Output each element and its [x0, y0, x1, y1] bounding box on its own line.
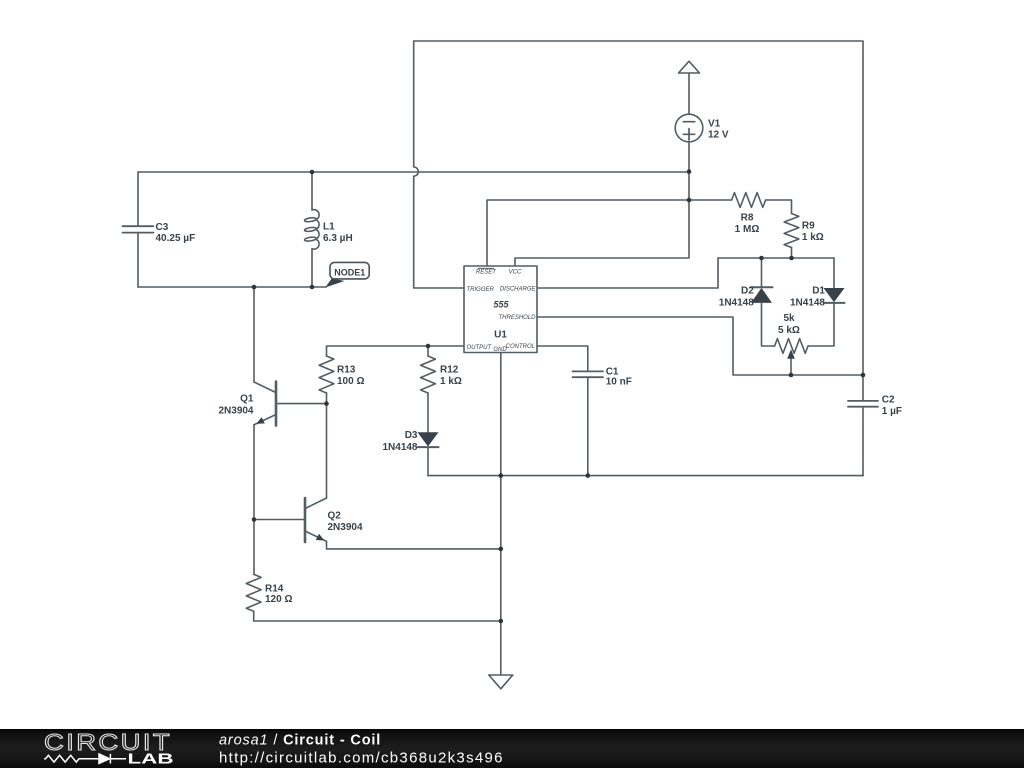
wire R8 to R9	[766, 200, 792, 214]
node NODE1 flag	[312, 262, 369, 287]
node dot R12 output	[426, 344, 431, 349]
svg-text:D3: D3	[405, 430, 418, 441]
wire OUTPUT left to R13	[327, 346, 465, 356]
wire R14 to bottom left rail	[254, 611, 501, 621]
svg-text:1N4148: 1N4148	[382, 442, 417, 453]
capacitor C2	[848, 375, 878, 476]
inductor L1	[304, 172, 319, 287]
diode D2	[751, 258, 775, 346]
svg-text:R8: R8	[741, 213, 754, 224]
svg-text:THRESHOLD: THRESHOLD	[498, 315, 536, 321]
svg-text:C3: C3	[156, 222, 169, 233]
svg-text:120 Ω: 120 Ω	[265, 594, 292, 605]
svg-text:arosa1 / Circuit - Coil: arosa1 / Circuit - Coil	[219, 733, 381, 749]
svg-text:12 V: 12 V	[708, 130, 729, 141]
wire THRESHOLD to pot wiper bus	[537, 317, 863, 375]
svg-text:R12: R12	[440, 365, 459, 376]
footer bar	[0, 729, 1024, 768]
wire R12 tap	[427, 346, 429, 356]
wire Q1 collector up to tank	[253, 287, 255, 382]
wire R9 to bus	[791, 248, 793, 259]
wire diode bus	[718, 257, 834, 259]
svg-text:6.3 µH: 6.3 µH	[323, 233, 353, 244]
svg-text:1 µF: 1 µF	[882, 406, 902, 417]
power flag arrow above V1	[679, 61, 700, 114]
resistor R8	[732, 193, 766, 208]
node dot Q2 emitter gnd	[499, 547, 504, 552]
svg-text:1 kΩ: 1 kΩ	[440, 376, 462, 387]
node dot Q1 collector tank	[252, 285, 257, 290]
svg-text:http://circuitlab.com/cb368u2k: http://circuitlab.com/cb368u2k3s496	[219, 749, 504, 766]
wire Q1 emitter down to R14	[253, 425, 255, 575]
svg-text:40.25 µF: 40.25 µF	[156, 233, 196, 244]
wire R13 to base node	[326, 393, 328, 404]
diode D3	[418, 432, 439, 475]
wire left vertical with hop over tank wire	[414, 41, 464, 288]
resistor R12	[421, 356, 436, 393]
node dot V1 reset junction	[687, 198, 692, 203]
wire tank bottom	[138, 286, 312, 288]
svg-text:1N4148: 1N4148	[719, 298, 754, 309]
node dot C2 top	[861, 373, 866, 378]
svg-text:D2: D2	[741, 286, 754, 297]
capacitor C3	[123, 172, 154, 287]
wire Q2 base	[254, 519, 305, 521]
resistor R13	[319, 356, 334, 393]
voltage source V1	[675, 114, 703, 142]
node dot R9 bus	[789, 256, 794, 261]
wire CONTROL to C1	[537, 346, 588, 371]
svg-text:R9: R9	[802, 221, 815, 232]
op-amp U1 555 box	[464, 266, 537, 353]
node dot NODE1 attach	[310, 285, 315, 290]
svg-text:Q2: Q2	[328, 510, 342, 521]
wire tank top	[138, 171, 689, 173]
svg-text:NODE1: NODE1	[334, 268, 365, 278]
svg-text:10 nF: 10 nF	[606, 377, 632, 388]
resistor R9	[784, 214, 799, 248]
wire outer loop top and right border	[414, 41, 863, 375]
logo resistor diode squiggle	[44, 754, 126, 764]
svg-text:2N3904: 2N3904	[328, 522, 363, 533]
svg-text:Q1: Q1	[240, 394, 254, 405]
node dot D2 bus	[759, 256, 764, 261]
svg-text:2N3904: 2N3904	[218, 405, 253, 416]
transistor Q1	[254, 382, 276, 426]
svg-text:555: 555	[493, 300, 509, 310]
node dot gnd bottom rail	[499, 473, 504, 478]
svg-text:1 MΩ: 1 MΩ	[735, 224, 760, 235]
svg-text:100 Ω: 100 Ω	[337, 376, 364, 387]
svg-text:CONTROL: CONTROL	[506, 344, 535, 350]
capacitor C1	[573, 371, 604, 475]
svg-text:R13: R13	[337, 365, 356, 376]
wire RESET up and right to R8	[487, 200, 732, 266]
potentiometer 5k	[775, 339, 808, 375]
node dot Q2 base	[252, 517, 257, 522]
ground symbol	[489, 675, 513, 689]
wire bottom rail	[428, 475, 863, 477]
diode D1	[808, 258, 845, 346]
svg-text:V1: V1	[708, 119, 721, 130]
svg-text:D1: D1	[812, 286, 825, 297]
node dot pot wiper	[789, 373, 794, 378]
transistor Q2	[305, 498, 327, 542]
wire GND vertical	[500, 353, 502, 676]
node dot R13 Q1 base	[324, 401, 329, 406]
node dot R14 gnd	[499, 619, 504, 624]
svg-text:RESET: RESET	[476, 270, 497, 276]
svg-text:VCC: VCC	[509, 270, 522, 276]
svg-text:OUTPUT: OUTPUT	[467, 345, 493, 351]
svg-text:R14: R14	[265, 584, 284, 595]
node dot L1 top	[310, 170, 315, 175]
node dot C1 bottom	[586, 473, 591, 478]
svg-text:1N4148: 1N4148	[790, 298, 825, 309]
svg-text:C2: C2	[882, 395, 895, 406]
svg-text:L1: L1	[323, 222, 335, 233]
svg-text:U1: U1	[494, 330, 507, 341]
wire DISCHARGE to bus	[537, 258, 718, 288]
wire base node down to Q2 collector	[326, 404, 328, 498]
svg-text:LAB: LAB	[128, 751, 174, 768]
wire Q2 emitter to gnd rail	[327, 541, 501, 549]
resistor R14	[246, 574, 261, 611]
svg-text:5 kΩ: 5 kΩ	[778, 325, 800, 336]
wire V1 minus down to VCC corner	[515, 142, 689, 266]
node dot V1 tank junction	[687, 169, 692, 174]
wire R12 to D3	[427, 393, 429, 432]
svg-text:DISCHARGE: DISCHARGE	[500, 286, 537, 292]
wire Q1 base	[276, 403, 327, 405]
svg-text:1 kΩ: 1 kΩ	[802, 232, 824, 243]
svg-text:5k: 5k	[783, 313, 795, 324]
svg-text:TRIGGER: TRIGGER	[467, 287, 495, 293]
